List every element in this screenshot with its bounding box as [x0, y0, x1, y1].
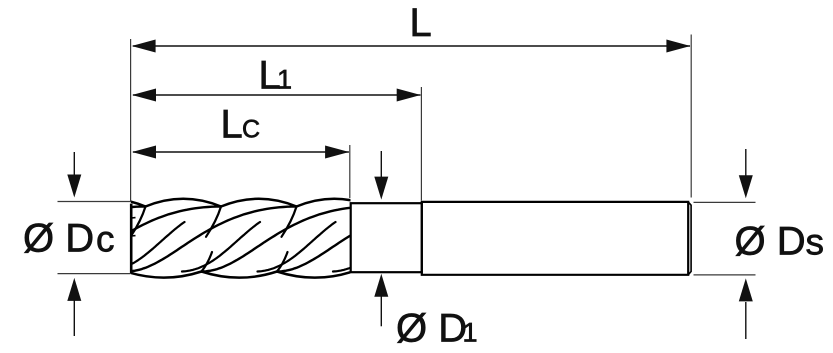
- svg-text:c: c: [96, 219, 115, 260]
- svg-text:Ø D: Ø D: [735, 220, 806, 264]
- svg-text:L: L: [221, 103, 243, 147]
- svg-text:Ø D: Ø D: [396, 307, 467, 351]
- svg-text:1: 1: [277, 65, 292, 95]
- svg-text:Ø D: Ø D: [23, 217, 94, 261]
- svg-text:L: L: [410, 1, 432, 45]
- svg-text:C: C: [242, 116, 260, 144]
- svg-text:s: s: [806, 222, 825, 263]
- svg-text:1: 1: [463, 318, 478, 348]
